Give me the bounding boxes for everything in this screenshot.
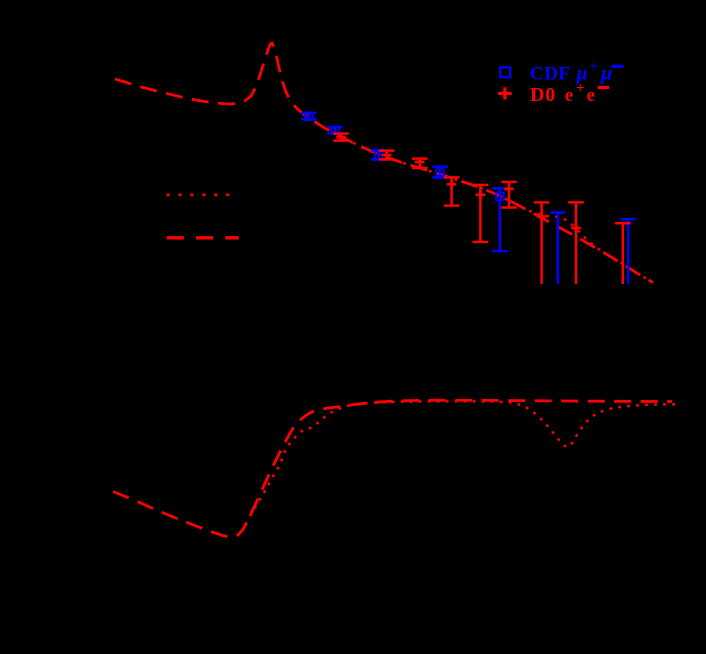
D0 point 3 star marker: [415, 161, 425, 164]
D0 point 8 star marker: [571, 227, 581, 230]
D0 point 7 star marker: [537, 215, 547, 218]
D0 point 1 error bar: [340, 134, 343, 141]
D0 point 8 error bar: [575, 202, 578, 284]
D0 point 1 star marker: [336, 136, 346, 139]
CDF point 7 error bar: [627, 219, 630, 284]
svg-text:e: e: [565, 85, 573, 106]
CDF point 3 square marker: [375, 152, 383, 160]
svg-text:+: +: [576, 81, 585, 97]
D0 point 3 error bar: [419, 159, 422, 168]
D0 point 2 error bar: [385, 151, 388, 160]
D0 point 6 error bar: [508, 182, 511, 208]
top panel Z-prime dotted curve: [345, 139, 649, 280]
D0 point 4 star marker: [447, 183, 457, 186]
bottom panel Z-prime dotted curve: [250, 401, 675, 516]
CDF point 2 error bar: [334, 127, 337, 133]
svg-text:CDF: CDF: [530, 64, 570, 85]
top panel SM dashed curve: [115, 43, 653, 282]
CDF point 4 error bar: [439, 167, 442, 178]
D0 point 9 error bar: [622, 223, 625, 284]
D0 point 5 error bar: [479, 185, 482, 242]
CDF point 1 square marker: [305, 112, 313, 120]
legend D0 star marker: [498, 92, 512, 95]
D0 point 7 error bar: [540, 202, 543, 284]
D0 point 6 star marker: [504, 188, 514, 191]
CDF point 1 error bar: [308, 113, 311, 119]
legend CDF square marker: [500, 67, 510, 77]
CDF point 5 square marker: [496, 193, 504, 201]
svg-text:+: +: [590, 59, 599, 75]
bottom panel SM dashed curve: [113, 400, 672, 537]
legend dashed line sample: [167, 236, 239, 239]
D0 point 5 star marker: [476, 194, 486, 197]
CDF point 4 square marker: [436, 168, 444, 176]
CDF point 3 error bar: [377, 150, 380, 159]
CDF point 2 square marker: [331, 127, 339, 135]
svg-text:e: e: [587, 85, 595, 106]
svg-text:μ: μ: [600, 63, 612, 85]
CDF point 6 error bar: [557, 213, 560, 284]
D0 point 4 error bar: [450, 177, 453, 205]
svg-text:D0: D0: [530, 84, 556, 106]
D0 point 2 star marker: [382, 154, 392, 157]
CDF point 5 error bar: [499, 188, 502, 251]
legend dotted line sample: [167, 193, 231, 196]
